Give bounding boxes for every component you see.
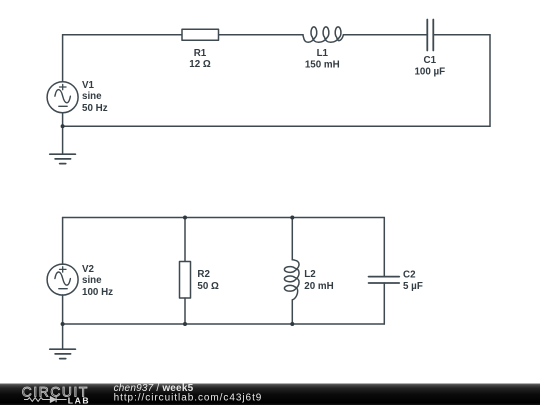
label R2: [197, 269, 219, 292]
node V1- junction: [61, 124, 65, 128]
svg-text:5 µF: 5 µF: [403, 281, 423, 292]
wire C2 bottom lead: [383, 283, 385, 324]
wire V2 ground lead: [62, 324, 64, 349]
wire R2 top lead: [184, 218, 186, 262]
capacitor C2: [369, 277, 400, 283]
svg-text:100 Hz: 100 Hz: [82, 287, 113, 298]
capacitor C1: [427, 20, 433, 51]
voltage source V2: [47, 264, 78, 295]
label R1: [189, 48, 211, 70]
wire R2 bottom lead: [184, 298, 186, 324]
label C1: [414, 55, 445, 77]
svg-text:C1: C1: [424, 55, 437, 66]
footer bar: [0, 384, 540, 405]
logo resistor-diode icon: [24, 397, 67, 403]
wire V1 bottom lead: [62, 113, 64, 127]
wire R1 to L1: [219, 34, 304, 36]
wire bottom rail: [63, 323, 385, 325]
wire bottom rail of top loop: [63, 125, 490, 127]
svg-text:150 mH: 150 mH: [305, 59, 340, 70]
wire right edge down: [489, 35, 491, 126]
wire V2 top lead: [62, 218, 64, 265]
inductor L1: [303, 27, 343, 42]
wire V1 top lead: [62, 35, 64, 82]
svg-text:sine: sine: [82, 91, 102, 102]
wire L2 bottom lead: [291, 300, 293, 324]
resistor R1: [182, 29, 219, 40]
svg-text:50 Hz: 50 Hz: [82, 103, 108, 114]
label C2: [403, 270, 423, 293]
node L2 bottom junction: [290, 322, 294, 326]
label L1: [305, 48, 340, 70]
wire V1 ground lead: [62, 126, 64, 154]
svg-text:50 Ω: 50 Ω: [197, 281, 219, 292]
wire C1 to top-right corner: [433, 34, 490, 36]
svg-text:LAB: LAB: [68, 395, 90, 405]
svg-text:V2: V2: [82, 264, 95, 275]
node R2 top junction: [183, 216, 187, 220]
wire L1 to C1: [343, 34, 427, 36]
wire C2 top lead: [383, 218, 385, 277]
svg-text:R1: R1: [194, 48, 207, 59]
svg-text:100 µF: 100 µF: [414, 66, 445, 77]
voltage source V1: [47, 82, 78, 113]
wire top rail left (V1 to R1): [63, 34, 182, 36]
svg-text:L1: L1: [317, 48, 329, 59]
label V1: [82, 80, 108, 114]
ground (bottom circuit): [50, 349, 76, 358]
svg-text:C2: C2: [403, 270, 416, 281]
label L2: [304, 269, 333, 292]
node R2 bottom junction: [183, 322, 187, 326]
svg-text:V1: V1: [82, 80, 95, 91]
wire V2 bottom lead: [62, 295, 64, 324]
resistor R2: [180, 262, 191, 299]
label V2: [82, 264, 113, 298]
svg-text:L2: L2: [304, 269, 316, 280]
svg-text:R2: R2: [197, 269, 210, 280]
svg-text:20 mH: 20 mH: [304, 281, 333, 292]
inductor L2: [284, 260, 299, 300]
svg-text:http://circuitlab.com/c43j6t9: http://circuitlab.com/c43j6t9: [114, 392, 263, 403]
wire L2 top lead: [291, 218, 293, 260]
node V2- junction: [61, 322, 65, 326]
ground (top circuit): [50, 154, 76, 163]
wire bottom circuit top rail: [63, 217, 385, 219]
svg-text:12 Ω: 12 Ω: [189, 59, 211, 70]
node L2 top junction: [290, 216, 294, 220]
svg-text:sine: sine: [82, 275, 102, 286]
